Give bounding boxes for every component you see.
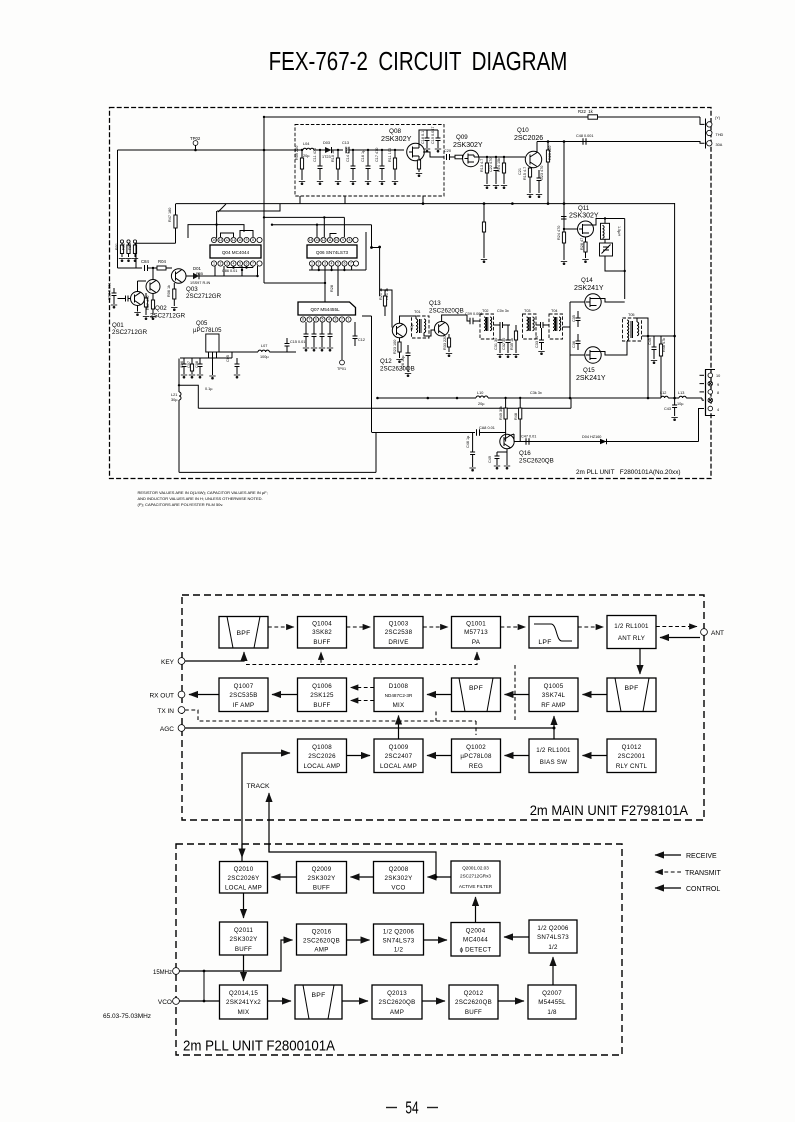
svg-text:Q14: Q14 [581, 277, 593, 284]
wire arrow Q2012 to Q2007 [498, 1000, 524, 1002]
capacitor C48 [582, 138, 584, 144]
svg-text:Q12: Q12 [380, 358, 392, 365]
inductor L04 [296, 149, 303, 151]
wire arrow Q1002 to Q1009 [427, 755, 452, 757]
wire TRACK line down into Q2010 [241, 844, 243, 858]
capacitor C47 [525, 438, 527, 444]
svg-text:1SS97 R-IN: 1SS97 R-IN [190, 281, 211, 285]
wire KEY dashed branch to Q1004 [246, 652, 321, 665]
capacitor C19 [437, 130, 439, 138]
svg-text:15MHz: 15MHz [153, 970, 172, 976]
svg-text:3SK82: 3SK82 [312, 629, 332, 636]
svg-text:Q1004: Q1004 [312, 621, 332, 628]
svg-text:9: 9 [717, 383, 719, 387]
svg-text:L10: L10 [477, 391, 483, 395]
IF coupling caps [494, 324, 501, 326]
svg-text:Q07 M54455L: Q07 M54455L [310, 307, 340, 312]
block Q1012 relay control [607, 739, 656, 773]
svg-text:Q04 MC4044: Q04 MC4044 [222, 250, 250, 255]
wire Q11 drain to tank [589, 219, 625, 226]
wire left rail low [178, 359, 180, 393]
wire lower bus B [198, 407, 571, 409]
svg-text:4: 4 [233, 262, 235, 266]
svg-text:D01: D01 [193, 266, 201, 271]
svg-text:AMP: AMP [314, 947, 328, 954]
svg-text:2SC2620QB: 2SC2620QB [303, 938, 340, 945]
svg-text:13: 13 [315, 238, 319, 242]
svg-text:8: 8 [717, 391, 719, 395]
svg-text:2: 2 [341, 318, 343, 322]
wire Q11 gate tap [564, 228, 578, 230]
svg-text:2: 2 [318, 262, 320, 266]
svg-text:BUFF: BUFF [235, 946, 252, 953]
svg-text:1T23: 1T23 [322, 155, 331, 159]
svg-text:6: 6 [246, 262, 248, 266]
svg-text:2SK302Y: 2SK302Y [385, 875, 413, 882]
svg-text:R49 30k: R49 30k [499, 406, 503, 420]
svg-text:(Y): (Y) [715, 116, 721, 120]
port VCO [173, 998, 180, 1005]
svg-text:BUFF: BUFF [465, 1009, 482, 1016]
shunt caps to ground [499, 328, 501, 340]
inductor L06 tank [601, 223, 610, 239]
wire long vertical from bias rail [674, 203, 676, 398]
pin numbers Q07 [302, 318, 350, 322]
svg-text:2SC2620QB: 2SC2620QB [455, 999, 492, 1006]
svg-text:Q2013: Q2013 [387, 990, 407, 997]
wire T04 to gates [563, 326, 571, 328]
svg-text:C43: C43 [664, 407, 671, 411]
svg-text:12: 12 [322, 238, 326, 242]
legend arrow RECEIVE [655, 854, 681, 856]
ground Q16 emitter [506, 449, 508, 465]
svg-text:ɸ DETECT: ɸ DETECT [460, 947, 492, 954]
svg-text:C20: C20 [444, 149, 451, 153]
transformer T03 [523, 314, 537, 339]
svg-text:C08: C08 [195, 361, 199, 368]
capacitor C44 to ground [472, 433, 474, 453]
svg-text:1: 1 [348, 318, 350, 322]
svg-text:Q15: Q15 [583, 367, 595, 374]
svg-text:TRANSMIT: TRANSMIT [685, 870, 722, 877]
svg-text:Q2007: Q2007 [542, 990, 562, 997]
svg-text:Q1009: Q1009 [389, 744, 409, 751]
Q05 legs [208, 352, 210, 358]
svg-text:10µ: 10µ [410, 323, 414, 330]
svg-text:R33 220: R33 220 [443, 336, 447, 350]
wire dashed arrow Q1003 to Q1001 [423, 626, 448, 628]
svg-text:R02: R02 [122, 243, 126, 250]
shunt RC network [381, 150, 383, 166]
block Q2001-03 active filter [451, 861, 500, 893]
IC Q04 top pins [211, 237, 262, 242]
resistor R49 drop [505, 398, 507, 433]
wire arrow divider to Q2004 [424, 939, 448, 941]
svg-text:L21: L21 [171, 393, 177, 397]
svg-text:BUFF: BUFF [313, 639, 330, 646]
wire arrow right BPF to Q1005 [583, 694, 608, 696]
wire right drop [375, 432, 377, 472]
svg-text:TRACK: TRACK [246, 783, 270, 790]
svg-text:2SC2712GR: 2SC2712GR [186, 293, 222, 300]
wire arrow Q2007 up to divider [552, 957, 554, 985]
svg-text:2SC535B: 2SC535B [229, 692, 257, 699]
transistor Q10 [525, 151, 541, 167]
svg-text:LOCAL AMP: LOCAL AMP [380, 763, 417, 770]
svg-text:5: 5 [322, 318, 324, 322]
2m PLL UNIT dashed border [176, 844, 622, 1055]
svg-text:8: 8 [349, 238, 351, 242]
wire Q16 output [510, 434, 514, 435]
wire pin drop 3 [241, 266, 243, 276]
svg-text:T03: T03 [524, 309, 531, 313]
svg-text:R14 15k: R14 15k [497, 158, 501, 172]
svg-text:LPF: LPF [538, 639, 551, 646]
svg-text:7: 7 [252, 262, 254, 266]
resistor R18 drop [483, 204, 485, 258]
transistor Q12 [392, 323, 406, 337]
svg-text:2SC2538: 2SC2538 [385, 629, 413, 636]
svg-text:Q13: Q13 [429, 300, 441, 307]
svg-text:3: 3 [324, 262, 326, 266]
transformer T05 [623, 318, 642, 341]
wire arrow Q2009 to Q2010 [272, 876, 297, 878]
svg-text:BPF: BPF [311, 992, 325, 999]
svg-text:11: 11 [232, 238, 236, 242]
wire jumpers above Q06 pins [330, 234, 337, 238]
port AGC [178, 725, 185, 732]
block Q1009 local amp [374, 739, 423, 773]
capacitor C43 [674, 398, 676, 405]
svg-text:8: 8 [302, 318, 304, 322]
wire up to connector [699, 409, 705, 442]
capacitor C18 [426, 130, 428, 138]
svg-text:2SC2001: 2SC2001 [618, 753, 646, 760]
wire routing B [265, 216, 345, 218]
svg-text:3: 3 [226, 262, 228, 266]
wire arrow Q2010 down to Q2011 [243, 893, 245, 918]
block Q1005 RF AMP [529, 678, 578, 712]
svg-text:Q11: Q11 [578, 205, 590, 212]
block LPF [529, 617, 578, 649]
trimmer capacitor tank [604, 239, 606, 243]
wire T05 secondary out [637, 318, 648, 336]
svg-text:Q1005: Q1005 [544, 683, 564, 690]
block BPF (mid row) [452, 678, 501, 712]
capacitor near Q01 base [128, 298, 131, 300]
wire drop to Q06 pin c [316, 225, 318, 237]
label 2m PLL UNIT F2800101A [183, 1038, 336, 1055]
wire KEY dashed branch to Q1001 [321, 652, 477, 665]
wire bottom run [179, 471, 376, 473]
ground Q01 emitter [137, 306, 139, 312]
svg-text:R10 1k: R10 1k [331, 150, 335, 162]
svg-text:2SC2712GRx3: 2SC2712GRx3 [460, 874, 491, 879]
transistor Q13 [434, 322, 448, 336]
resistor R07 network [145, 293, 147, 315]
wire arrow Q1005 to BPF [505, 694, 530, 696]
svg-text:ANT RLY: ANT RLY [618, 635, 645, 642]
resistor R47 [175, 204, 177, 243]
svg-text:2m MAIN UNIT F2798101A: 2m MAIN UNIT F2798101A [530, 803, 688, 818]
svg-text:R35 1k: R35 1k [510, 338, 514, 350]
inductor L07 [238, 351, 258, 353]
svg-text:C14 470: C14 470 [346, 148, 350, 162]
svg-text:AND INDUCTOR VALUES ARE IN H;: AND INDUCTOR VALUES ARE IN H; UNLESS OTH… [138, 496, 263, 501]
svg-text:R06 1k: R06 1k [167, 285, 171, 297]
PLL unit outer dashed border [110, 108, 712, 479]
svg-text:DRIVE: DRIVE [388, 639, 408, 646]
wire Q13 collector [442, 315, 470, 322]
svg-text:R20 220: R20 220 [548, 146, 552, 160]
wire drop to Q06 pin [343, 217, 345, 237]
svg-text:2: 2 [220, 262, 222, 266]
svg-text:2SC2620QB: 2SC2620QB [429, 308, 464, 315]
block Q2011 buffer [220, 922, 268, 955]
svg-text:4: 4 [717, 408, 719, 412]
Q10 emitter network [529, 167, 531, 181]
svg-text:BPF: BPF [469, 685, 483, 692]
svg-text:D03: D03 [323, 141, 330, 145]
svg-text:5: 5 [239, 262, 241, 266]
inductor L21 [179, 392, 181, 400]
svg-text:Q03: Q03 [186, 286, 198, 293]
svg-text:12: 12 [225, 238, 229, 242]
svg-text:AMP: AMP [390, 1009, 404, 1016]
IC Q04 bottom pins [211, 261, 262, 266]
block 1/2 RL1001 ANT RLY [607, 616, 656, 649]
wire main supply bus [118, 149, 297, 151]
svg-text:4: 4 [331, 262, 333, 266]
svg-text:Q2001.02.03: Q2001.02.03 [462, 866, 489, 871]
inductor L13 [679, 396, 686, 398]
block Q1007 IF AMP [219, 678, 268, 712]
svg-text:3SK74L: 3SK74L [542, 692, 566, 699]
transformer T02 [480, 314, 494, 339]
wire Q04 stub bus [227, 267, 253, 269]
svg-text:BPF: BPF [236, 630, 250, 637]
test point TP01 [341, 322, 343, 360]
gate caps Q14 Q15 [577, 311, 579, 318]
block Q2008 VCO [374, 862, 424, 894]
wire Q10 collector up [536, 142, 538, 153]
shunt cap [541, 328, 543, 340]
svg-text:LOCAL AMP: LOCAL AMP [225, 885, 262, 892]
block Q2013 amp [372, 985, 422, 1019]
svg-text:R46 47k: R46 47k [662, 338, 666, 352]
svg-text:RX OUT: RX OUT [149, 693, 174, 700]
svg-text:1/2 Q2006: 1/2 Q2006 [383, 929, 414, 936]
svg-text:Q10: Q10 [517, 127, 529, 134]
block BPF bottom [295, 985, 342, 1019]
svg-text:13: 13 [219, 238, 223, 242]
svg-text:VCO: VCO [158, 999, 172, 1006]
svg-text:20µ: 20µ [303, 154, 310, 158]
resistor R22 [588, 115, 598, 119]
wire dashed from D1008 bottom to TX line [435, 712, 437, 722]
svg-text:2SC2620QB: 2SC2620QB [519, 458, 554, 465]
svg-text:2SC2620QB: 2SC2620QB [379, 999, 416, 1006]
port RX OUT [178, 691, 185, 698]
capacitor C06 [183, 358, 185, 364]
svg-text:MIX: MIX [393, 702, 405, 709]
svg-text:1/2: 1/2 [394, 947, 404, 954]
svg-text:R07 470: R07 470 [146, 296, 150, 310]
test point TP02 [193, 141, 198, 146]
wire vertical node [563, 142, 565, 261]
wire Q14 drain to T05 [597, 299, 625, 303]
block 1/2 Q2006 divider [374, 924, 424, 955]
svg-text:10: 10 [716, 374, 720, 378]
svg-text:(P); CAPACITORS ARE POLYESTER: (P); CAPACITORS ARE POLYESTER FILM 50v. [138, 502, 224, 507]
wire Q09 output [473, 155, 475, 157]
resistor Q13 emitter [448, 334, 450, 352]
wire collector feed [136, 243, 176, 268]
shunt capacitor C14 [352, 150, 354, 166]
wire arrow Q2008 to Q2009 [351, 876, 374, 878]
wire Q03 output [186, 275, 215, 277]
block Q2016 amp [297, 924, 347, 955]
svg-text:1: 1 [213, 262, 215, 266]
svg-text:Q09: Q09 [456, 134, 468, 141]
IC Q07 M54455L [298, 302, 356, 315]
svg-text:L13: L13 [678, 391, 684, 395]
svg-text:2SC2712GR: 2SC2712GR [150, 313, 186, 320]
connector J01 top [705, 119, 707, 149]
dash right of page number [427, 1107, 438, 1109]
svg-text:C46 1µ: C46 1µ [466, 435, 470, 448]
IC Q06 top pins [308, 237, 358, 242]
capacitor C12 [354, 322, 356, 336]
svg-text:2SK302Y: 2SK302Y [308, 875, 336, 882]
svg-text:T04: T04 [551, 309, 558, 313]
svg-text:SN74LS73: SN74LS73 [383, 938, 415, 945]
wire Q08 output [423, 152, 444, 157]
svg-text:C3k 3x: C3k 3x [530, 391, 542, 395]
wire to Q07 [324, 270, 326, 302]
wire KEY line [185, 652, 244, 661]
svg-text:L12: L12 [660, 391, 666, 395]
wire arrow BPF to D1008 [427, 694, 452, 696]
wire arrow Q2011 down to MIX [243, 955, 245, 981]
svg-text:Q1002: Q1002 [466, 744, 486, 751]
resistor R12 [455, 155, 463, 159]
diode D04 [600, 439, 607, 445]
wire arrow BIAS SW to Q1002 [505, 755, 530, 757]
wire arrow right divider to Q2004 [504, 936, 529, 938]
wire T01 to Q13 [424, 330, 435, 336]
junction AGC bias node [553, 727, 556, 730]
block Q2007 divider 1/8 [528, 985, 576, 1019]
svg-text:10: 10 [238, 238, 242, 242]
transistor Q16 [500, 434, 514, 448]
svg-text:9: 9 [342, 238, 344, 242]
svg-text:MC4044: MC4044 [463, 937, 488, 944]
wire Q02 collector up [152, 268, 154, 280]
svg-text:D1008: D1008 [389, 683, 409, 690]
wire dashed arrow Q1004 to Q1003 [347, 626, 371, 628]
svg-text:R15 4.7: R15 4.7 [523, 167, 527, 180]
IC Q07 pins [300, 317, 351, 322]
block 1/2 Q2006 divider right [529, 920, 577, 953]
svg-text:10: 10 [335, 238, 339, 242]
wire rail mid [263, 150, 265, 283]
svg-text:L07: L07 [261, 344, 267, 348]
svg-text:R05: R05 [196, 272, 203, 276]
svg-text:C06: C06 [180, 361, 184, 368]
svg-text:Q1008: Q1008 [312, 744, 332, 751]
block BPF (top row) [219, 617, 268, 649]
svg-text:7: 7 [309, 318, 311, 322]
value labels group C [385, 288, 635, 395]
svg-text:R11 100: R11 100 [388, 148, 392, 162]
regulator Q05 [206, 334, 219, 352]
resistor Q12 emitter [399, 338, 401, 358]
svg-text:C35: C35 [572, 315, 576, 322]
wire Q06 side drop [365, 232, 367, 270]
pin numbers Q06 [309, 238, 352, 266]
wire dashed arrow Q1001 to LPF [501, 626, 526, 628]
wire B plus rail [642, 335, 675, 337]
svg-text:2SC2026: 2SC2026 [308, 753, 336, 760]
block Q1002 regulator [452, 739, 501, 773]
wire pin drop 2 [223, 266, 225, 276]
wire vertical mid feed [371, 225, 373, 248]
svg-text:C23 470: C23 470 [540, 166, 544, 180]
FET Q15 [585, 347, 601, 363]
svg-text:µPC78L08: µPC78L08 [460, 753, 492, 760]
svg-text:CONTROL: CONTROL [686, 886, 720, 893]
svg-text:10µ: 10µ [677, 402, 684, 406]
svg-text:1/2 Q2006: 1/2 Q2006 [537, 925, 568, 932]
wire solid arrow ANT into ANT RLY [660, 637, 700, 639]
svg-text:Q06 SN74LS73: Q06 SN74LS73 [316, 250, 349, 255]
wire base feed [118, 267, 143, 269]
block Q2014,15 MIX [220, 985, 268, 1019]
svg-text:C86 0.01: C86 0.01 [222, 269, 237, 273]
svg-text:1: 1 [311, 262, 313, 266]
resistor R03 [133, 240, 136, 243]
svg-text:Q05: Q05 [196, 321, 208, 327]
wire TRACK feed into Q1008 [242, 753, 290, 862]
wire under Q06 [264, 282, 325, 284]
svg-text:Q1007: Q1007 [234, 683, 254, 690]
svg-text:2SC2712GR: 2SC2712GR [112, 329, 148, 336]
svg-text:THD: THD [716, 133, 724, 137]
capacitor C45 [653, 336, 655, 347]
capacitor C01 on left border [113, 288, 115, 293]
svg-text:ND487C2-3R: ND487C2-3R [385, 693, 413, 698]
wire bottom feed [371, 316, 373, 432]
wire dashed into Q1002 top [475, 721, 477, 735]
block Q1008 local amp [298, 739, 347, 773]
svg-text:Q2004: Q2004 [466, 928, 486, 935]
svg-text:C18 0.1: C18 0.1 [421, 131, 425, 144]
svg-text:RESISTOR VALUES ARE IN Ω(1/4W): RESISTOR VALUES ARE IN Ω(1/4W); CAPACITO… [138, 490, 268, 495]
svg-text:C45: C45 [648, 338, 652, 345]
svg-text:8: 8 [252, 238, 254, 242]
svg-text:100µ: 100µ [260, 355, 269, 359]
svg-text:2m PLL UNIT F2800101A: 2m PLL UNIT F2800101A [183, 1038, 336, 1055]
svg-text:REG: REG [469, 763, 483, 770]
wire dashed arrow D1008 to Q1006 lower [351, 700, 375, 702]
svg-text:RLY CNTL: RLY CNTL [616, 763, 648, 770]
wire jumpers above Q04 pins [221, 233, 234, 237]
wire TX IN dashed [185, 710, 476, 721]
svg-text:R26 47: R26 47 [580, 238, 584, 250]
capacitor CA8 [476, 429, 478, 435]
svg-text:30A: 30A [716, 143, 723, 147]
